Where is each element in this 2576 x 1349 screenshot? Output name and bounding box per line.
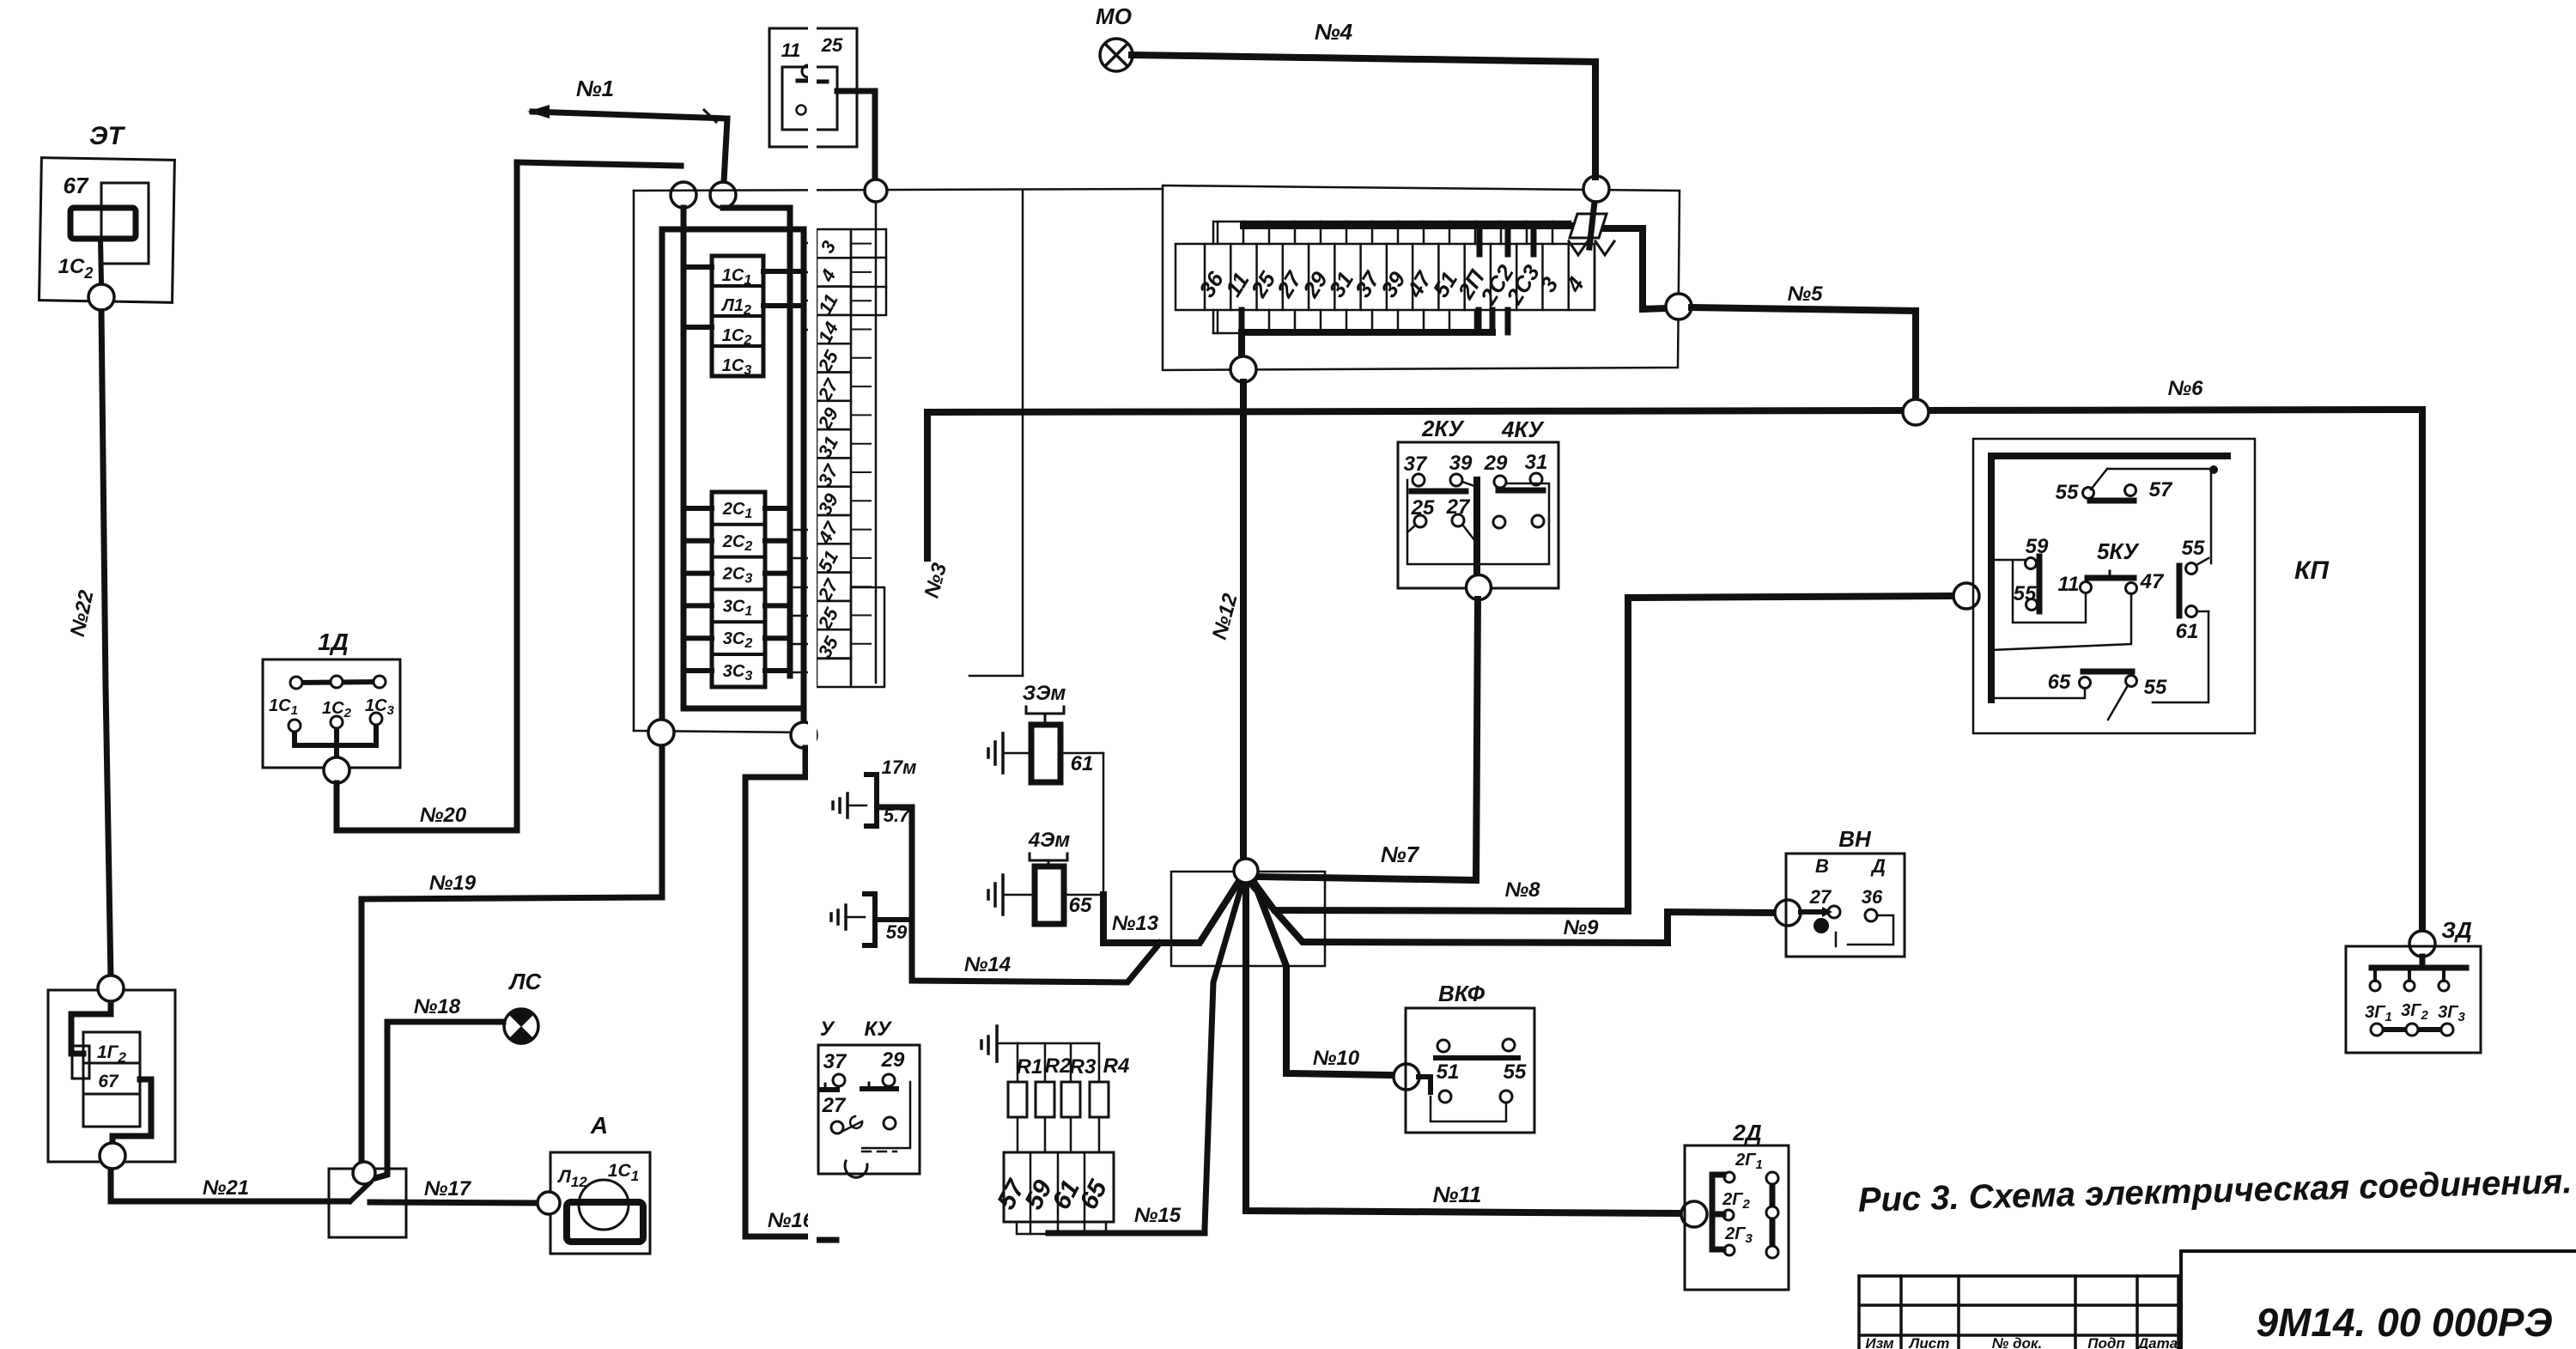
svg-text:39: 39 [1449,452,1473,475]
svg-text:R2: R2 [1045,1054,1072,1078]
svg-text:67: 67 [64,173,89,198]
svg-text:2Д: 2Д [1732,1120,1761,1145]
svg-text:4КУ: 4КУ [1501,416,1545,442]
svg-text:ВН: ВН [1838,826,1872,852]
svg-text:А: А [590,1112,608,1139]
svg-text:67: 67 [98,1072,119,1091]
svg-text:№18: №18 [414,995,461,1018]
svg-text:9М14. 00 000РЭ: 9М14. 00 000РЭ [2256,1300,2552,1345]
svg-text:27: 27 [822,1094,847,1117]
svg-text:Подп: Подп [2087,1335,2125,1349]
svg-text:№15: №15 [1134,1204,1182,1227]
svg-text:МО: МО [1096,3,1132,29]
svg-text:59: 59 [886,921,908,943]
svg-text:№11: №11 [1433,1182,1482,1207]
svg-text:11: 11 [781,39,801,61]
svg-text:№1: №1 [576,76,614,101]
svg-text:25: 25 [821,34,843,56]
svg-text:29: 29 [881,1048,905,1072]
svg-text:№19: №19 [429,872,477,895]
svg-text:№9: №9 [1564,916,1600,939]
svg-text:№6: №6 [2168,377,2204,400]
svg-text:ЭТ: ЭТ [89,122,126,150]
svg-text:55: 55 [2014,582,2037,605]
svg-text:2КУ: 2КУ [1421,416,1465,441]
svg-text:57: 57 [2149,478,2173,501]
svg-text:55: 55 [2182,537,2205,560]
svg-text:47: 47 [2140,570,2165,593]
svg-text:11: 11 [2058,573,2080,596]
svg-text:В: В [1815,855,1829,877]
svg-text:№17: №17 [424,1177,472,1200]
svg-text:ВКФ: ВКФ [1438,981,1485,1006]
svg-text:КУ: КУ [864,1018,892,1041]
svg-text:R1: R1 [1017,1055,1043,1079]
svg-text:37: 37 [1404,453,1428,476]
svg-text:65: 65 [2048,671,2071,694]
svg-text:КП: КП [2294,556,2330,585]
svg-text:№20: №20 [420,804,467,827]
svg-text:Дата: Дата [2136,1335,2178,1349]
svg-text:55: 55 [2144,676,2167,699]
svg-text:36: 36 [1862,886,1883,908]
svg-text:Изм: Изм [1865,1335,1894,1349]
svg-text:55: 55 [2056,481,2079,504]
svg-text:17м: 17м [882,757,917,778]
svg-text:№10: №10 [1313,1047,1360,1070]
svg-text:У: У [820,1018,835,1041]
svg-text:5КУ: 5КУ [2097,538,2140,564]
svg-text:R3: R3 [1070,1055,1097,1079]
svg-text:Д: Д [1870,855,1886,877]
svg-text:61: 61 [2176,620,2199,643]
svg-text:ЗД: ЗД [2441,917,2472,943]
svg-text:51: 51 [1437,1060,1460,1084]
svg-text:№ док.: № док. [1992,1335,2042,1349]
svg-text:61: 61 [1071,752,1094,775]
svg-text:№8: №8 [1505,878,1541,902]
svg-text:№4: №4 [1315,19,1353,45]
svg-text:№13: №13 [1112,912,1159,935]
svg-text:4Эм: 4Эм [1028,829,1071,852]
svg-text:№14: №14 [964,953,1011,976]
svg-text:1Д: 1Д [318,629,349,655]
svg-text:ЗЭм: ЗЭм [1023,682,1066,705]
svg-text:R4: R4 [1103,1054,1130,1078]
svg-text:27: 27 [1809,886,1832,908]
svg-text:37: 37 [823,1050,848,1073]
svg-text:31: 31 [1525,451,1548,474]
svg-text:ЛС: ЛС [508,969,543,994]
svg-text:№7: №7 [1381,842,1420,867]
svg-text:55: 55 [1504,1060,1527,1084]
svg-text:65: 65 [1069,894,1092,917]
svg-text:Лист: Лист [1908,1335,1950,1349]
svg-text:№5: №5 [1788,283,1824,306]
svg-text:29: 29 [1484,452,1508,475]
svg-text:№16: №16 [768,1209,815,1232]
svg-text:№21: №21 [203,1176,249,1200]
